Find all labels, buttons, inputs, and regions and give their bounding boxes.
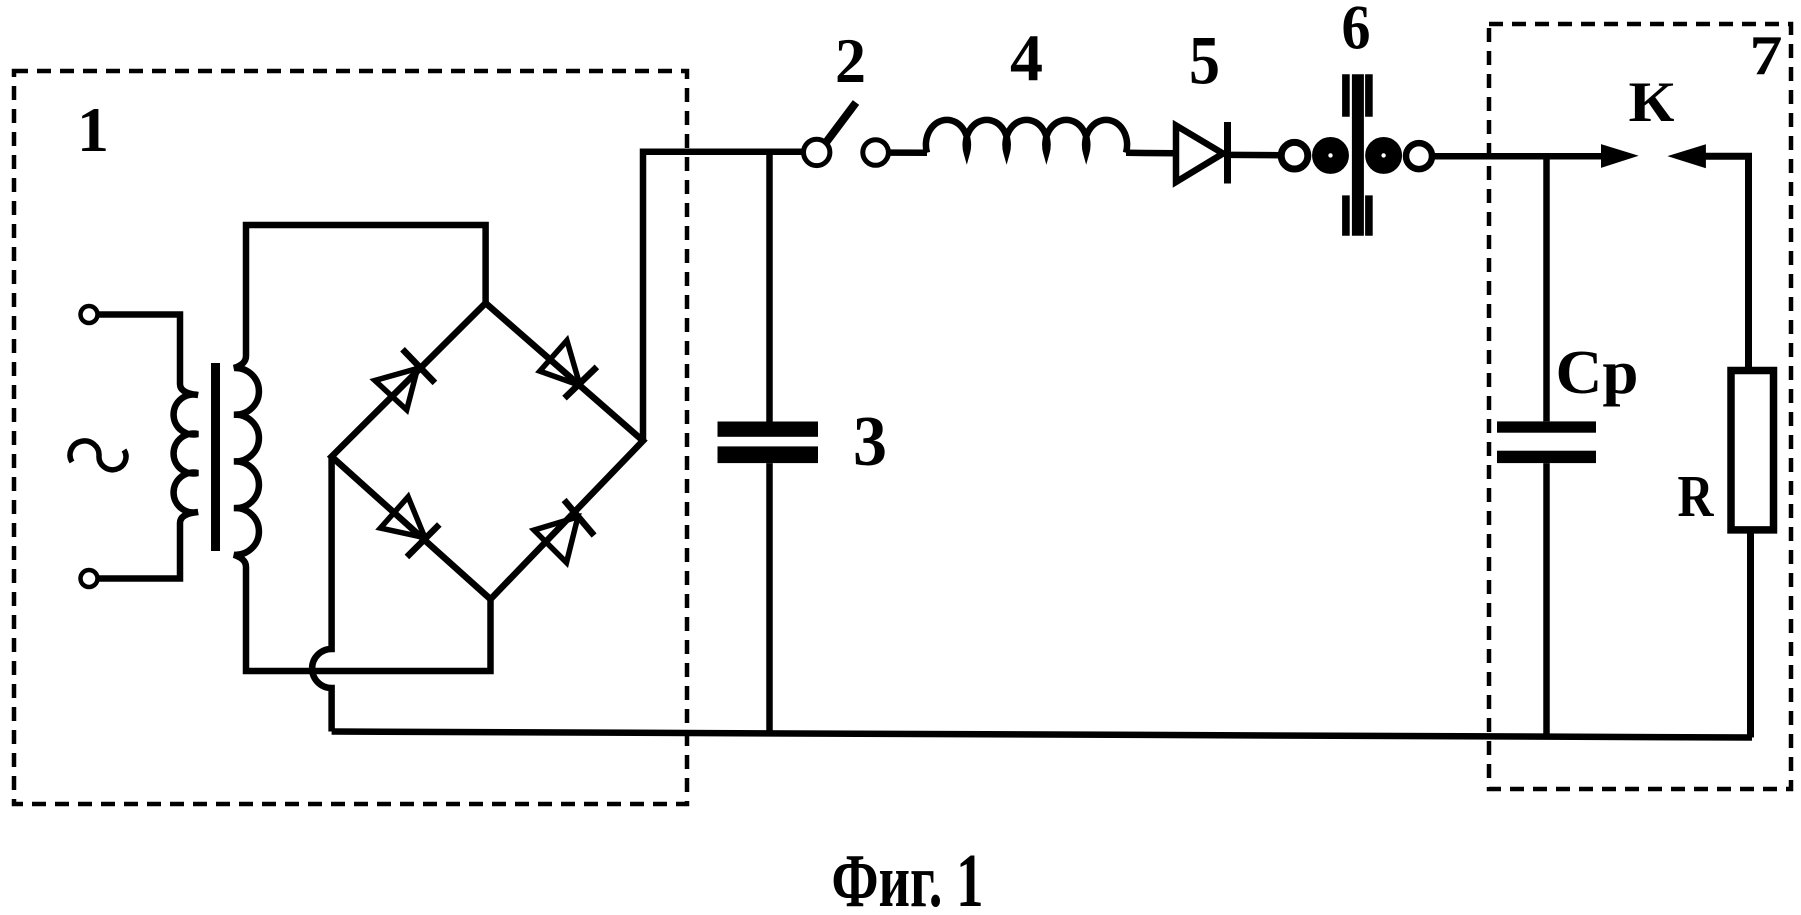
svg-text:7: 7	[1750, 25, 1783, 87]
svg-text:5: 5	[1189, 23, 1220, 99]
svg-text:6: 6	[1342, 0, 1371, 62]
svg-text:Ср: Ср	[1556, 339, 1639, 407]
svg-text:К: К	[1629, 71, 1675, 134]
svg-text:1: 1	[77, 94, 109, 165]
svg-text:2: 2	[835, 25, 866, 96]
svg-text:4: 4	[1010, 21, 1043, 95]
svg-text:3: 3	[853, 403, 887, 481]
svg-text:Фиг. 1: Фиг. 1	[832, 839, 984, 915]
svg-text:R: R	[1678, 463, 1715, 529]
